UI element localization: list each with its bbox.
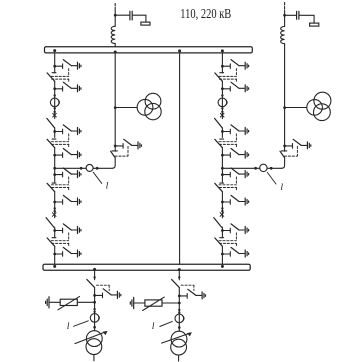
wire: trap to busbar (left transformer bay) — [114, 44, 116, 47]
wire: elbow into right coupler run — [282, 158, 285, 169]
ground (right arrester) — [130, 297, 133, 308]
node dots below TA2 — [221, 107, 223, 109]
transformer T4 (two-winding, regulated) — [162, 331, 192, 355]
node: left column at top busbar — [53, 49, 56, 52]
wire: capacitor to earth plate — [133, 15, 146, 22]
earthing switch branch QS12-1 — [221, 224, 249, 234]
center tie line between busbars — [179, 53, 181, 264]
disconnector QS2 blade (no tick) — [47, 118, 55, 127]
node dots above breaker (left feeder) — [93, 308, 95, 310]
linkage (dashed), right bay — [284, 146, 297, 156]
earthing switch branch QS6-1 — [53, 224, 81, 234]
leader to label l (left feeder) — [74, 321, 89, 327]
node: right of breaker Q1 — [96, 167, 99, 170]
disconnector QS1 blade — [47, 73, 56, 82]
wire: capacitor to earth plate (right) — [300, 15, 315, 23]
linkage (dashed) bay 1 left — [51, 69, 68, 82]
disconnector QS13 blade — [87, 279, 95, 287]
current transformer TA2 — [218, 98, 227, 107]
earthing switch branch QS9-1 — [221, 125, 249, 135]
linkage (dashed), left bay — [115, 146, 128, 156]
earthing switch branch QS6-2 — [53, 247, 81, 257]
node: right column at top busbar — [221, 49, 224, 52]
disconnector QS3 blade — [47, 139, 56, 148]
earthing switch branch QS7-2 — [221, 82, 249, 92]
disconnector QS5 blade (no tick) — [46, 218, 54, 228]
transformer T1 (three-winding) — [137, 93, 161, 120]
node: right feeder at bottom busbar — [178, 268, 181, 271]
earthing switch branch QS3-1 — [53, 125, 81, 135]
node dot above transformer T4 — [178, 326, 181, 329]
top busbar W1 — [45, 47, 253, 53]
svg-text:l: l — [280, 182, 283, 193]
node: arrester tee (left) — [93, 301, 96, 304]
wire: to left coupling capacitor — [115, 14, 129, 16]
capacitor C2 (coupling) — [297, 11, 299, 19]
surge arrester FV1 — [58, 296, 80, 309]
earthing switch branch QS7-1 — [221, 60, 249, 70]
right transformer feeder below bottom busbar — [178, 270, 180, 331]
svg-text:l: l — [67, 321, 70, 332]
circuit breaker Q2 — [260, 164, 267, 171]
transformer T2 (three-winding) — [307, 92, 331, 120]
node: right column at bottom busbar — [221, 265, 224, 268]
leader to label l (right feeder) — [160, 321, 173, 326]
earthing switch branch QS14-1 — [178, 289, 206, 299]
node dots below QS4-2 — [54, 207, 56, 209]
node: right run at column — [221, 167, 224, 170]
leader to label l (left breaker) — [93, 172, 102, 183]
linkage (dashed) left feeder — [96, 285, 109, 290]
earth plate (left) — [141, 22, 150, 25]
earthing switch branch QS1-2 — [53, 82, 81, 92]
removable link x-mark (lower right) — [220, 213, 224, 217]
node dot above transformer T3 — [93, 326, 96, 329]
current transformer TA1 — [50, 98, 59, 107]
node dots below QS10-2 — [221, 207, 223, 209]
linkage (dashed) bay 2 right — [219, 134, 236, 147]
earthing switch branch QS9-2 — [221, 149, 249, 159]
node dots below TA1 — [54, 107, 56, 109]
wire: elbow into left coupler run — [112, 158, 115, 169]
node: left feeder at bottom busbar — [93, 268, 96, 271]
node: center line at top busbar — [178, 49, 181, 52]
earthing switch branch QS12-2 — [221, 247, 249, 257]
wire: left breaker run — [55, 167, 112, 169]
svg-text:l: l — [106, 181, 109, 192]
wire: to surge arrester FV1 — [77, 301, 94, 303]
wire: T3 bottom stub — [93, 355, 95, 361]
node: left column at bottom busbar — [53, 265, 56, 268]
disconnector QS6 blade — [47, 238, 56, 247]
node: right transformer tap — [283, 106, 286, 109]
node dot — [178, 276, 180, 278]
transformer T3 (two-winding, regulated) — [75, 331, 108, 355]
left feeder column line — [54, 53, 56, 264]
capacitor C1 (coupling) — [130, 11, 132, 20]
leader to label l (right breaker) — [267, 172, 276, 184]
removable link x-mark — [53, 113, 57, 117]
disconnector QS with earthing switch, right bay — [283, 139, 311, 149]
linkage (dashed) bay 3 left — [51, 177, 68, 190]
wire: arrester to ground (left) — [50, 301, 61, 303]
removable link x-mark (right) — [220, 113, 224, 117]
disconnector QS10 blade — [215, 183, 224, 192]
removable link x-mark (lower left) — [52, 213, 56, 217]
earthing switch branch QS13-1 — [93, 289, 121, 299]
node: left of breaker Q2 — [254, 167, 257, 170]
linkage (dashed) bay 4 right — [219, 233, 236, 246]
earthing switch branch QS3-2 — [53, 149, 81, 159]
node: left of breaker Q1 — [80, 167, 83, 170]
earthing switch branch QS4-2 — [53, 195, 81, 205]
disconnector blade, left bay line — [112, 146, 117, 151]
disconnector QS7 blade — [215, 73, 224, 82]
wire: tap to transformer T2 — [285, 107, 307, 109]
wire: to right coupling capacitor — [285, 14, 296, 16]
wire: right breaker run — [222, 167, 281, 169]
inductor L2 (line trap, right) — [284, 15, 286, 26]
surge arrester FV2 — [143, 297, 165, 310]
bottom busbar W2 — [43, 264, 250, 270]
linkage (dashed) bay 4 left — [51, 233, 68, 246]
disconnector blade, right bay line — [281, 146, 286, 151]
node: left coupling junction — [114, 14, 117, 17]
node: left trap line at busbar — [114, 51, 117, 54]
disconnector QS12 blade — [215, 238, 224, 247]
left transformer feeder below bottom busbar — [94, 270, 96, 331]
ground (left arrester) — [46, 297, 49, 308]
node dots above breaker (right feeder) — [178, 309, 180, 311]
wire: to surge arrester FV2 — [162, 302, 179, 304]
wire: stub above right line-trap junction — [284, 3, 286, 16]
svg-text:l: l — [152, 321, 155, 332]
wire: arrester to ground (right) — [134, 302, 145, 304]
linkage (dashed) bay 2 left — [51, 134, 68, 147]
node: right coupling junction — [283, 14, 286, 17]
right feeder column line — [221, 53, 223, 264]
disconnector QS11 blade (no tick) — [214, 218, 222, 228]
linkage (dashed) right feeder — [181, 285, 194, 290]
wire: stub above left line-trap junction — [114, 4, 116, 16]
inductor L1 (line trap, left) — [114, 15, 116, 26]
circuit breaker Q4 — [175, 314, 184, 323]
node: right of breaker Q2 — [270, 167, 273, 170]
linkage (dashed) bay 1 right — [219, 69, 236, 82]
circuit breaker Q1 — [86, 164, 93, 171]
disconnector QS9 blade — [215, 139, 224, 148]
circuit breaker Q3 — [90, 314, 99, 323]
earth plate (right) — [310, 23, 319, 26]
linkage (dashed) bay 3 right — [219, 177, 236, 190]
node dot — [93, 276, 95, 278]
earthing switch branch QS4-1 — [53, 168, 81, 178]
wire: tap to transformer T1 — [115, 107, 137, 109]
node: left transformer tap — [114, 106, 117, 109]
disconnector QS4 blade — [47, 183, 56, 192]
svg-text:110, 220 кВ: 110, 220 кВ — [180, 7, 231, 22]
earthing switch branch QS10-1 — [221, 168, 249, 178]
disconnector QS14 blade — [172, 279, 180, 287]
disconnector QS with earthing switch, left bay — [114, 139, 142, 149]
wire: left bay line below busbar — [114, 53, 116, 146]
node dot — [54, 94, 56, 96]
disconnector QS8 blade (no tick) — [215, 118, 223, 127]
node: left run at column — [53, 167, 56, 170]
earthing switch branch QS1-1 — [53, 60, 81, 70]
node: arrester tee (right) — [178, 302, 181, 305]
wire: right bay line below trap — [284, 44, 286, 146]
earthing switch branch QS10-2 — [221, 195, 249, 205]
node dot — [221, 94, 223, 96]
wire: T4 bottom stub — [178, 355, 180, 361]
